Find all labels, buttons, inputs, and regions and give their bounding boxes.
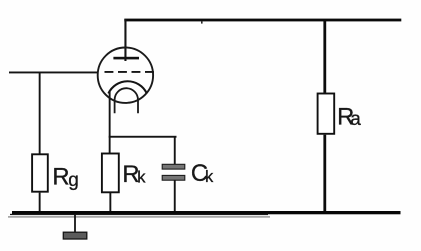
- wire anode lead: [124, 19, 126, 61]
- wire top supply rail: [124, 19, 401, 22]
- tube V1 anode plate: [113, 57, 139, 60]
- wire cathode lead: [109, 91, 111, 153]
- svg-text:k: k: [205, 168, 214, 186]
- tube V1 envelope: [98, 47, 153, 102]
- wire bottom rail echo line: [8, 216, 270, 217]
- wire Rg lower lead: [39, 193, 41, 212]
- capacitor Ck top plate: [162, 164, 185, 169]
- tube V1 heater: [115, 88, 138, 113]
- tube V1 cathode arc: [108, 81, 146, 93]
- svg-text:a: a: [350, 109, 361, 130]
- resistor Ra: [318, 94, 335, 134]
- wire Rg upper lead: [39, 72, 41, 154]
- wire Ra upper lead: [323, 20, 326, 93]
- ground plate: [63, 232, 87, 239]
- svg-text:k: k: [137, 168, 146, 186]
- svg-text:R: R: [52, 163, 69, 190]
- wire cathode to Ck: [109, 136, 177, 138]
- wire bottom rail overlap segment: [10, 214, 268, 215]
- wire bottom ground rail: [12, 211, 401, 214]
- capacitor Ck bottom plate: [162, 175, 185, 180]
- svg-text:g: g: [68, 170, 79, 191]
- resistor Rk: [102, 154, 119, 193]
- wire Ra lower lead: [323, 135, 326, 213]
- wire grid input: [9, 72, 97, 74]
- tube V1 grid (dashed): [105, 71, 155, 73]
- wire Ck upper lead: [174, 136, 176, 165]
- wire Ck lower lead: [174, 181, 176, 213]
- ground stub: [74, 214, 76, 232]
- junction tick on top rail: [201, 21, 203, 23]
- wire Rk lower lead: [109, 193, 111, 212]
- resistor Rg: [32, 154, 48, 191]
